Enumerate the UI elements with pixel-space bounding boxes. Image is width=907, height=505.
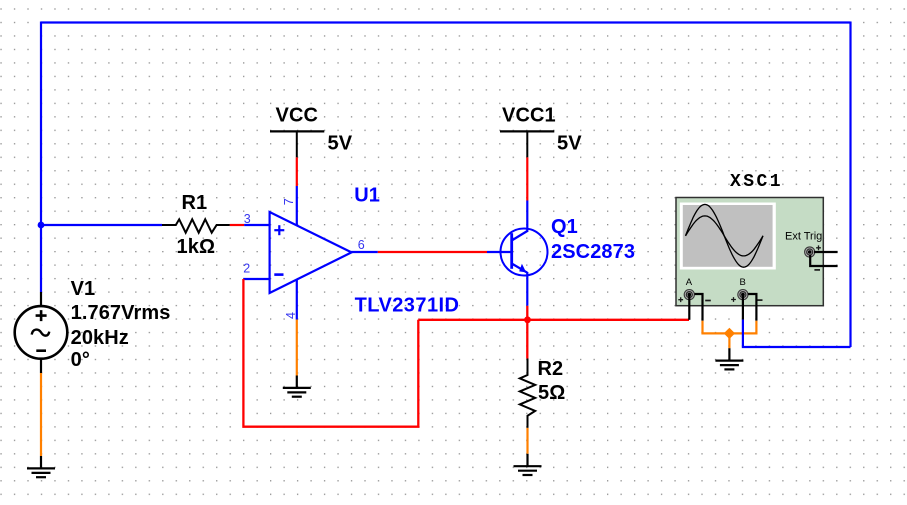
wire ext trig stubs bbox=[810, 252, 837, 266]
svg-text:U1: U1 bbox=[354, 185, 380, 207]
svg-text:5V: 5V bbox=[328, 133, 353, 155]
wire emitter rail red bbox=[418, 319, 689, 321]
svg-text:7: 7 bbox=[282, 198, 296, 205]
svg-text:0°: 0° bbox=[71, 349, 90, 371]
resistor R1 bbox=[162, 219, 230, 232]
svg-text:Q1: Q1 bbox=[551, 216, 578, 238]
wire R2 to ground bbox=[526, 428, 528, 454]
wire collector bbox=[526, 201, 528, 233]
ground bbox=[514, 454, 542, 475]
svg-text:20kHz: 20kHz bbox=[71, 327, 129, 349]
wire output blue bbox=[350, 251, 378, 253]
wire right rail bbox=[849, 22, 851, 348]
svg-text:A: A bbox=[686, 277, 693, 288]
svg-text:B: B bbox=[740, 277, 746, 288]
wire orange to ground bbox=[728, 333, 730, 348]
power VCC bbox=[270, 131, 324, 157]
wire A minus orange bbox=[703, 321, 757, 334]
terminal Ext Trig bbox=[805, 247, 815, 257]
svg-text:R2: R2 bbox=[538, 358, 564, 380]
svg-text:VCC1: VCC1 bbox=[502, 104, 556, 126]
wire B plus post bbox=[742, 295, 744, 320]
wire junction to R1 bbox=[41, 224, 162, 226]
wire top rail bbox=[41, 21, 851, 23]
svg-text:1kΩ: 1kΩ bbox=[177, 236, 216, 258]
scope trace A bbox=[686, 204, 764, 267]
op-amp U1 bbox=[270, 212, 352, 293]
wire feedback red bbox=[243, 279, 418, 427]
svg-text:6: 6 bbox=[358, 238, 365, 252]
svg-text:5Ω: 5Ω bbox=[538, 382, 565, 404]
wire output red bbox=[378, 251, 487, 253]
wire A minus post bbox=[695, 294, 703, 321]
scope trace B bbox=[686, 216, 764, 256]
wire V1 to ground bbox=[40, 373, 42, 456]
node junction emitter-R2 bbox=[524, 316, 531, 323]
node orange junction bbox=[724, 328, 735, 339]
svg-text:5V: 5V bbox=[557, 133, 582, 155]
svg-text:3: 3 bbox=[244, 212, 251, 226]
wire base blue bbox=[487, 251, 512, 253]
svg-text:R1: R1 bbox=[182, 192, 208, 214]
terminal A bbox=[684, 290, 694, 300]
wire R1 to pin3 red bbox=[230, 224, 245, 226]
svg-text:2: 2 bbox=[243, 262, 250, 276]
wire pin3 blue bbox=[244, 224, 269, 226]
transistor Q1 bbox=[501, 229, 548, 276]
node junction V1-R1 bbox=[38, 222, 45, 229]
wire A plus post bbox=[688, 295, 690, 320]
wire B to top rail blue bbox=[743, 320, 851, 348]
svg-text:1.767Vrms: 1.767Vrms bbox=[71, 302, 171, 324]
wire B minus post bbox=[748, 294, 757, 321]
wire pin7 bbox=[296, 186, 298, 226]
ground bbox=[715, 348, 743, 369]
svg-text:VCC: VCC bbox=[276, 104, 319, 126]
svg-text:Ext Trig: Ext Trig bbox=[785, 230, 822, 242]
wire pin4 bbox=[296, 280, 298, 320]
source V1 bbox=[15, 292, 68, 373]
power VCC1 bbox=[500, 131, 554, 157]
wire emitter bbox=[526, 272, 528, 306]
svg-text:TLV2371ID: TLV2371ID bbox=[355, 295, 460, 317]
resistor R2 bbox=[520, 359, 535, 428]
svg-text:2SC2873: 2SC2873 bbox=[551, 241, 635, 263]
wire pin2 blue bbox=[243, 278, 269, 280]
terminal B bbox=[738, 290, 748, 300]
ground bbox=[283, 376, 311, 397]
ground bbox=[27, 456, 55, 477]
svg-text:V1: V1 bbox=[71, 278, 96, 300]
wire left rail bbox=[40, 22, 42, 293]
svg-text:XSC1: XSC1 bbox=[730, 172, 783, 192]
